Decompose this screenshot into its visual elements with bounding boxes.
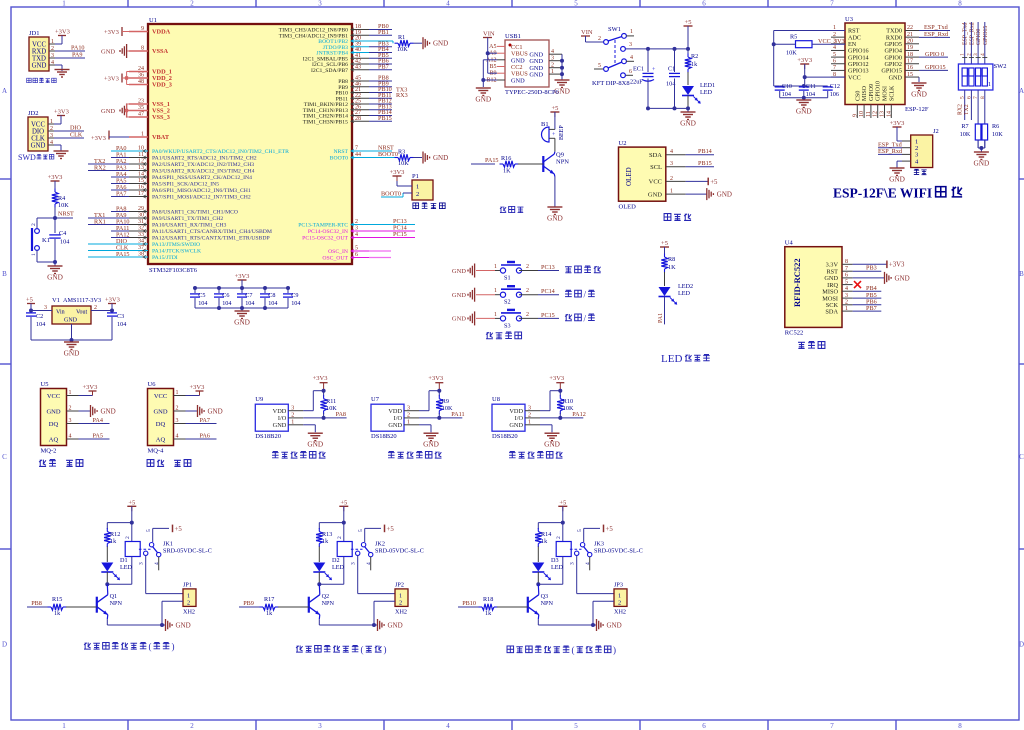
svg-text:4: 4 <box>355 232 358 238</box>
sensor U7 DS18B20 <box>371 404 404 431</box>
svg-text:10K: 10K <box>992 131 1003 138</box>
svg-text:DS18B20: DS18B20 <box>255 433 281 440</box>
svg-text:3: 3 <box>528 405 531 411</box>
resistor R12 1k <box>104 532 110 544</box>
svg-text:+5: +5 <box>551 105 558 112</box>
U6 signal wires <box>186 423 217 425</box>
svg-text:VCC: VCC <box>154 393 167 400</box>
svg-text:PA5/SPI1_SCK/ADC12_IN5: PA5/SPI1_SCK/ADC12_IN5 <box>152 182 219 188</box>
svg-text:OSC_IN: OSC_IN <box>328 249 348 255</box>
resistor R16 1K <box>471 163 495 165</box>
svg-text:DS18B20: DS18B20 <box>371 433 397 440</box>
svg-text:R4: R4 <box>58 195 65 202</box>
svg-text:GND: GND <box>452 292 466 299</box>
svg-text:ESP_Rxd: ESP_Rxd <box>878 148 903 155</box>
svg-text:GND: GND <box>423 440 439 449</box>
svg-text:R8: R8 <box>668 256 675 263</box>
svg-text:PB3: PB3 <box>866 265 877 272</box>
diode LED2 <box>659 287 671 296</box>
svg-text:2: 2 <box>416 191 419 198</box>
svg-text:LED: LED <box>700 89 713 96</box>
svg-text:OLED: OLED <box>619 204 637 211</box>
svg-text:1: 1 <box>291 420 294 426</box>
svg-text:VDD: VDD <box>388 408 402 415</box>
svg-text:1: 1 <box>69 390 72 396</box>
svg-text:8: 8 <box>980 96 986 99</box>
svg-text:GPIO15: GPIO15 <box>925 64 946 71</box>
svg-text:GND: GND <box>889 74 903 81</box>
svg-text:PA0/WKUP/USART2_CTS/ADC12_IN0/: PA0/WKUP/USART2_CTS/ADC12_IN0/TIM2_CH1_E… <box>152 149 289 155</box>
svg-text:C7: C7 <box>245 292 252 299</box>
U7 IO wire PA11 <box>419 417 462 419</box>
svg-text:PA5: PA5 <box>93 433 103 440</box>
svg-text:CS0: CS0 <box>855 91 861 101</box>
svg-text:2: 2 <box>50 126 53 132</box>
svg-text:4: 4 <box>845 286 848 292</box>
title relay output water pump <box>84 643 91 650</box>
ESP_Txd ESP_Rxd wires <box>919 30 950 32</box>
svg-text:GND: GND <box>529 58 543 65</box>
title temperature module 2 <box>388 452 395 459</box>
JD2 ground <box>54 144 61 146</box>
svg-text:13: 13 <box>880 111 886 117</box>
U9 ground <box>303 424 315 426</box>
svg-text:8: 8 <box>958 722 962 730</box>
svg-text:PB9: PB9 <box>243 600 254 607</box>
svg-text:10: 10 <box>859 111 865 117</box>
display U2 OLED <box>619 147 666 201</box>
svg-text:C5: C5 <box>198 292 205 299</box>
svg-text:PA10/USART1_RX/TIM1_CH3: PA10/USART1_RX/TIM1_CH3 <box>152 223 227 229</box>
svg-text:1k: 1k <box>54 610 61 617</box>
V1 ground rail <box>31 339 112 341</box>
svg-text:GND: GND <box>64 349 80 358</box>
svg-text:GPIO0: GPIO0 <box>976 28 982 45</box>
svg-text:2: 2 <box>966 53 972 56</box>
relay contact JK1 <box>139 548 151 550</box>
svg-text:5: 5 <box>833 52 836 58</box>
J2 +3V3 <box>893 126 902 128</box>
svg-text:PA6: PA6 <box>200 433 210 440</box>
svg-text:(: ( <box>149 642 152 652</box>
svg-text:1: 1 <box>494 312 497 318</box>
svg-text:TIM1_CH3N/PB15: TIM1_CH3N/PB15 <box>303 119 348 125</box>
+5 for LED2 <box>660 246 669 248</box>
resistor R14 1k <box>535 532 541 544</box>
svg-text:U7: U7 <box>371 396 380 403</box>
svg-text:R14: R14 <box>541 531 551 538</box>
svg-text:11: 11 <box>866 111 872 117</box>
svg-text:DIO: DIO <box>32 128 44 135</box>
svg-text:GND: GND <box>208 408 223 416</box>
svg-text:RX1: RX1 <box>94 218 106 225</box>
svg-text:VBAT: VBAT <box>152 134 170 141</box>
U5 GND <box>79 410 91 412</box>
svg-text:LED1: LED1 <box>700 82 715 89</box>
svg-text:8: 8 <box>845 259 848 265</box>
J2 ground <box>897 160 902 162</box>
svg-text:A: A <box>1019 87 1024 95</box>
svg-text:9: 9 <box>852 114 858 117</box>
svg-text:22: 22 <box>907 25 913 31</box>
svg-text:5: 5 <box>577 529 583 532</box>
svg-text:1: 1 <box>630 29 633 35</box>
svg-text:2: 2 <box>176 406 179 412</box>
svg-text:+3V3: +3V3 <box>549 375 564 382</box>
V1 output +3V3 <box>91 310 112 312</box>
svg-text:104: 104 <box>666 81 675 88</box>
svg-text:17: 17 <box>907 58 913 64</box>
svg-text:3: 3 <box>629 42 632 48</box>
svg-text:GND: GND <box>511 78 525 85</box>
svg-text:21: 21 <box>907 32 913 38</box>
svg-text:4: 4 <box>551 49 554 55</box>
svg-text:PA14/JTCK/SWCLK: PA14/JTCK/SWCLK <box>152 249 202 255</box>
svg-text:GND: GND <box>680 119 696 128</box>
svg-text:Vout: Vout <box>76 310 88 316</box>
svg-text:PA6/SPI1_MISO/ADC12_IN6/TIM3_C: PA6/SPI1_MISO/ADC12_IN6/TIM3_CH1 <box>152 188 251 194</box>
svg-text:1K: 1K <box>503 168 511 175</box>
svg-text:PA15: PA15 <box>116 251 130 258</box>
svg-text:1: 1 <box>416 184 419 191</box>
svg-text:D: D <box>2 641 7 649</box>
svg-text:C8: C8 <box>268 292 275 299</box>
svg-text:4: 4 <box>446 0 450 8</box>
sensor U6 MQ-4 <box>148 389 174 446</box>
svg-text:7: 7 <box>833 65 836 71</box>
svg-text:PB10: PB10 <box>462 600 476 607</box>
svg-text:+3V3: +3V3 <box>390 169 405 176</box>
svg-text:PA15: PA15 <box>485 157 499 164</box>
resistor R5 10K <box>774 30 845 32</box>
svg-text:6: 6 <box>833 58 836 64</box>
svg-text:1: 1 <box>31 253 37 256</box>
svg-text:22uF: 22uF <box>630 79 643 86</box>
capacitor C5 104 <box>194 288 196 293</box>
svg-text:LED: LED <box>678 290 691 297</box>
PB0-PB7 net labels <box>369 29 392 31</box>
svg-text:3: 3 <box>318 722 322 730</box>
svg-text:MQ-4: MQ-4 <box>148 448 165 455</box>
svg-text:NPN: NPN <box>541 600 554 607</box>
svg-text:NPN: NPN <box>556 159 569 166</box>
svg-text:PC15-OSC32_OUT: PC15-OSC32_OUT <box>302 236 348 242</box>
svg-text:R17: R17 <box>264 596 274 603</box>
svg-text:104: 104 <box>268 300 277 307</box>
svg-text:GND: GND <box>153 408 167 415</box>
svg-text:PB7: PB7 <box>378 63 389 70</box>
svg-text:VCC: VCC <box>32 41 46 48</box>
svg-text:7: 7 <box>845 266 848 272</box>
svg-text:4: 4 <box>980 53 986 56</box>
NRST BOOT0 labels with R3 10K to GND <box>369 150 392 152</box>
svg-text:20: 20 <box>907 39 913 45</box>
svg-text:PC13: PC13 <box>541 264 555 271</box>
svg-text:JD1: JD1 <box>29 30 39 37</box>
relay coil JK3 <box>562 523 564 543</box>
svg-text:+3V3: +3V3 <box>889 262 905 269</box>
svg-text:3: 3 <box>291 405 294 411</box>
svg-text:PA7: PA7 <box>116 190 126 197</box>
svg-text:USB1: USB1 <box>505 33 521 40</box>
resistor R18 1k input <box>458 606 472 608</box>
svg-text:3: 3 <box>176 418 179 424</box>
resistor R4 10K <box>52 192 58 204</box>
svg-text:SDA: SDA <box>649 152 662 159</box>
svg-text:TX2: TX2 <box>964 104 970 115</box>
svg-text:2: 2 <box>598 36 601 42</box>
svg-text:47: 47 <box>138 112 144 118</box>
svg-text:GND: GND <box>31 142 46 149</box>
svg-text:35: 35 <box>138 105 144 111</box>
svg-text:3: 3 <box>50 133 53 139</box>
connector JD2 SWD download port <box>28 117 48 151</box>
svg-text:4: 4 <box>50 140 53 146</box>
svg-text:2: 2 <box>670 176 673 182</box>
JD2 DIO CLK wires <box>54 130 84 132</box>
svg-text:U9: U9 <box>255 396 263 403</box>
svg-text:S3: S3 <box>504 322 511 329</box>
svg-text:JP3: JP3 <box>614 582 623 589</box>
svg-text:EC1: EC1 <box>633 66 644 73</box>
svg-text:1: 1 <box>62 0 66 8</box>
svg-text:PA8/USART1_CK/TIM1_CH1/MCO: PA8/USART1_CK/TIM1_CH1/MCO <box>152 210 238 216</box>
svg-text:SCLK: SCLK <box>889 85 895 101</box>
svg-text:R9: R9 <box>442 398 449 405</box>
svg-text:GND: GND <box>475 95 491 104</box>
SW2 bottom wires RX2 TX2 <box>964 90 966 120</box>
svg-text:PA13/JTMS/SWDIO: PA13/JTMS/SWDIO <box>152 242 200 248</box>
U4 RST wire PB3 <box>853 270 882 272</box>
svg-text:C2: C2 <box>36 313 43 320</box>
svg-text:+3V3: +3V3 <box>91 135 106 142</box>
svg-text:9: 9 <box>141 26 144 32</box>
svg-text:R3: R3 <box>398 149 405 156</box>
svg-text:BOOT0: BOOT0 <box>330 156 348 162</box>
transistor Q1 NPN <box>96 597 98 613</box>
svg-text:R15: R15 <box>52 596 62 603</box>
button K1 <box>37 217 55 219</box>
svg-text:NPN: NPN <box>110 600 123 607</box>
svg-text:(: ( <box>361 645 364 655</box>
U6 GND <box>186 410 198 412</box>
title independent buttons <box>486 332 493 339</box>
svg-text:5: 5 <box>358 529 364 532</box>
svg-text:1: 1 <box>528 420 531 426</box>
resistor R17 1k input <box>239 606 253 608</box>
svg-text:7: 7 <box>830 722 834 730</box>
svg-text:104: 104 <box>806 91 815 98</box>
connector P1 download-set <box>412 180 433 200</box>
svg-text:1k: 1k <box>691 61 698 68</box>
svg-text:VDD: VDD <box>509 408 523 415</box>
svg-text:2: 2 <box>187 600 190 607</box>
svg-text:TXD: TXD <box>32 55 46 62</box>
svg-text:43: 43 <box>355 64 361 70</box>
svg-text:B5: B5 <box>489 64 496 70</box>
svg-text:104: 104 <box>782 91 791 98</box>
svg-text:PA1/USART2_RTS/ADC12_IN1/TIM2_: PA1/USART2_RTS/ADC12_IN1/TIM2_CH2 <box>152 156 257 162</box>
decoupling cap rail bottom <box>195 307 288 309</box>
mcu U1 STM32F103C8T6 <box>148 24 352 264</box>
svg-text:3: 3 <box>69 418 72 424</box>
svg-text:14: 14 <box>886 111 892 117</box>
+3V3 for ESP VCC <box>800 63 809 65</box>
svg-text:JK1: JK1 <box>163 541 173 548</box>
U1 PA0-PA15 pins <box>129 150 148 152</box>
svg-text:10K: 10K <box>397 46 408 53</box>
U2 SDA SCL wires PB14 PB15 <box>686 154 714 156</box>
svg-text:PB14: PB14 <box>698 148 712 155</box>
+3V3 for decoupling caps <box>238 279 247 281</box>
svg-text:4: 4 <box>69 434 72 440</box>
svg-text:GND: GND <box>509 422 523 429</box>
svg-text:AQ: AQ <box>49 436 59 443</box>
svg-text:23: 23 <box>138 99 144 105</box>
svg-text:1K: 1K <box>668 264 676 271</box>
U4 3.3V wire +3V3 <box>853 263 887 265</box>
svg-text:2: 2 <box>526 312 529 318</box>
sensor U8 DS18B20 <box>492 404 525 431</box>
svg-text:3: 3 <box>570 562 576 565</box>
svg-text:6: 6 <box>702 0 706 8</box>
svg-text:): ) <box>172 642 175 652</box>
svg-text:19: 19 <box>907 45 913 51</box>
svg-text:2: 2 <box>69 406 72 412</box>
button S3 <box>467 317 469 319</box>
capacitor C6 104 <box>218 288 220 293</box>
svg-text:+3V3: +3V3 <box>104 76 119 83</box>
svg-text:48: 48 <box>138 79 144 85</box>
svg-text:Q2: Q2 <box>322 593 330 600</box>
svg-text:104: 104 <box>245 300 254 307</box>
svg-text:3: 3 <box>407 405 410 411</box>
svg-text:DQ: DQ <box>156 421 166 428</box>
J2 ESP_Txd ESP_Rxd wires <box>878 147 902 149</box>
regulator V1 AMS1117-3V3 <box>52 306 91 324</box>
svg-text:XH2: XH2 <box>183 609 195 616</box>
svg-text:3V3: 3V3 <box>834 38 845 45</box>
svg-text:104: 104 <box>36 321 45 328</box>
svg-text:10K: 10K <box>786 50 797 57</box>
svg-text:MOSI: MOSI <box>883 86 889 101</box>
svg-text:JK3: JK3 <box>594 541 604 548</box>
svg-text:2: 2 <box>526 288 529 294</box>
capacitor C9 104 <box>287 288 289 293</box>
svg-text:K1: K1 <box>42 237 50 244</box>
svg-text:GND: GND <box>101 108 115 115</box>
svg-text:1: 1 <box>988 82 991 88</box>
svg-text:+5: +5 <box>710 179 718 186</box>
reset ground <box>54 262 56 266</box>
button S2 <box>467 294 469 296</box>
svg-text:5: 5 <box>355 246 358 252</box>
svg-text:4: 4 <box>670 149 673 155</box>
svg-text:1: 1 <box>494 264 497 270</box>
svg-text:GND: GND <box>32 62 47 69</box>
svg-text:R11: R11 <box>326 398 336 405</box>
svg-text:3: 3 <box>139 562 145 565</box>
svg-text:4: 4 <box>446 722 450 730</box>
title relay output fan <box>296 646 303 653</box>
svg-text:C3: C3 <box>117 313 124 320</box>
decoupling ground <box>241 308 243 311</box>
svg-text:+3V3: +3V3 <box>190 384 205 391</box>
svg-text:GPIO15: GPIO15 <box>983 26 989 45</box>
svg-text:ESP-12F\E WIFI: ESP-12F\E WIFI <box>833 186 932 201</box>
svg-text:104: 104 <box>198 300 207 307</box>
svg-text:PA11: PA11 <box>451 411 464 418</box>
svg-text:2: 2 <box>337 536 343 539</box>
svg-text:+3V3: +3V3 <box>235 273 250 280</box>
svg-text:Q3: Q3 <box>541 593 549 600</box>
svg-text:PB8: PB8 <box>31 600 42 607</box>
svg-text:7: 7 <box>830 0 834 8</box>
svg-text:JK2: JK2 <box>375 541 385 548</box>
svg-text:Q1: Q1 <box>110 593 118 600</box>
svg-text:R6: R6 <box>992 123 999 130</box>
svg-text:PC14: PC14 <box>541 288 555 295</box>
decoupling cap rail top <box>195 287 288 289</box>
svg-text:+3V3: +3V3 <box>55 29 70 36</box>
svg-text:VDD_3: VDD_3 <box>152 82 172 89</box>
svg-text:R5: R5 <box>790 34 797 41</box>
svg-text:6: 6 <box>966 96 972 99</box>
svg-text:A: A <box>2 87 7 95</box>
diode D2 LED <box>313 563 325 572</box>
svg-text:+5: +5 <box>128 499 135 506</box>
svg-text:DQ: DQ <box>49 421 59 428</box>
ground JK2 <box>377 619 379 631</box>
svg-text:104: 104 <box>117 321 126 328</box>
title temperature module 3 <box>509 452 516 459</box>
svg-text:10K: 10K <box>398 160 409 167</box>
svg-text:1: 1 <box>670 189 673 195</box>
svg-text:SW1: SW1 <box>608 26 621 33</box>
svg-text:1: 1 <box>51 39 54 45</box>
svg-text:10K: 10K <box>960 131 971 138</box>
capacitor EC1 22uF polarized <box>647 49 649 72</box>
title buzzer <box>500 206 506 212</box>
svg-text:5: 5 <box>574 722 578 730</box>
svg-text:GPIO9: GPIO9 <box>869 84 875 101</box>
svg-text:VDD: VDD <box>273 408 287 415</box>
svg-text:PA7/SPI1_MOSI/ADC12_IN7/TIM3_C: PA7/SPI1_MOSI/ADC12_IN7/TIM3_CH2 <box>152 195 251 201</box>
svg-text:PB1: PB1 <box>378 29 389 36</box>
resistor R2 1k <box>687 49 689 55</box>
capacitor C3 104 <box>107 312 117 314</box>
svg-text:+5: +5 <box>387 526 395 533</box>
U4 SPI wires PB4-PB7 <box>853 290 882 292</box>
svg-text:44: 44 <box>355 152 361 158</box>
JD1 ground <box>55 64 62 66</box>
PC13 PC14 PC15 net labels <box>369 224 415 226</box>
svg-text:3: 3 <box>973 53 979 56</box>
connector JP3 XH2 <box>614 589 627 607</box>
svg-text:R10: R10 <box>563 398 573 405</box>
diode LED1 <box>682 86 694 95</box>
U4 GND wire <box>853 277 885 279</box>
svg-text:GND: GND <box>796 107 812 116</box>
relay coil JK2 <box>343 523 345 543</box>
svg-text:OSC_OUT: OSC_OUT <box>322 256 348 262</box>
resistor R7 10K <box>975 124 981 140</box>
U8 ground <box>540 424 552 426</box>
title temperature module 1 <box>272 452 279 459</box>
svg-text:5: 5 <box>146 529 152 532</box>
svg-text:MISO: MISO <box>862 85 868 101</box>
svg-text:LED2: LED2 <box>678 283 693 290</box>
